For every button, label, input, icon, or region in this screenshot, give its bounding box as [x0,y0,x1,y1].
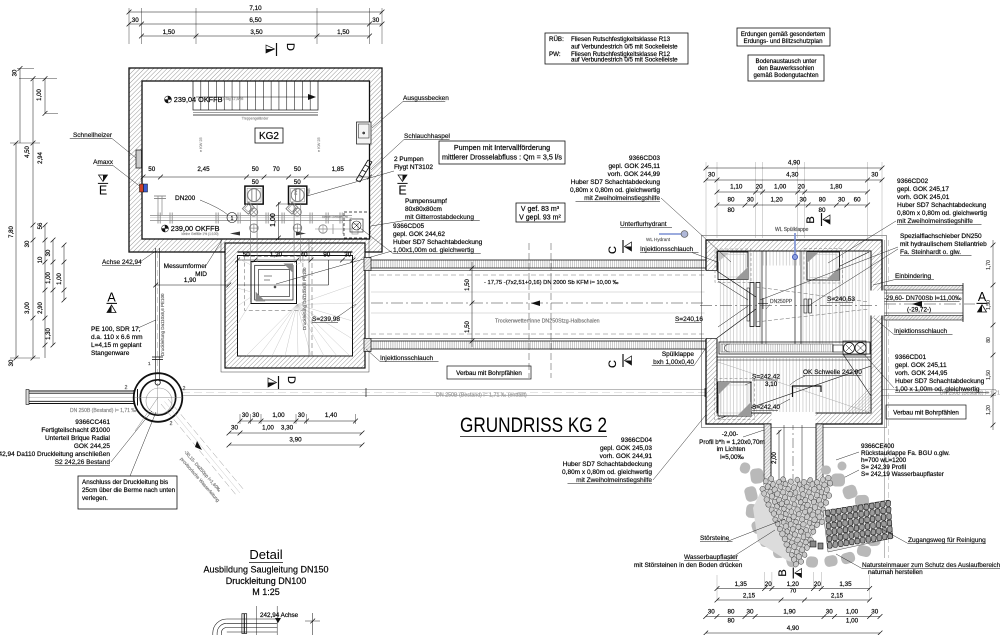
label Störsteine [700,519,785,542]
svg-text:1,90: 1,90 [783,609,796,616]
svg-text:Ausgussbecken: Ausgussbecken [403,95,449,102]
svg-text:1,85: 1,85 [332,166,345,173]
svg-text:Trockenwetterrinne DN250Stzg-: Trockenwetterrinne DN250Stzg-Halbschalen [495,319,600,325]
svg-text:-29,60- DN700Sb l=11,00‰: -29,60- DN700Sb l=11,00‰ [884,295,962,302]
label S=239,98 [312,304,356,323]
svg-text:30: 30 [46,249,52,256]
svg-text:1,10: 1,10 [730,184,743,191]
svg-text:4,50: 4,50 [25,146,31,158]
svg-text:25cm über die Berme nach unten: 25cm über die Berme nach unten [82,487,176,494]
svg-text:S=242,40: S=242,40 [752,404,780,411]
svg-text:Bodenaustausch unter: Bodenaustausch unter [756,58,817,65]
svg-text:50: 50 [148,166,156,173]
svg-text:OK Schwelle 242,90: OK Schwelle 242,90 [803,369,862,376]
svg-text:mit Zweiholmeinstiegshilfe: mit Zweiholmeinstiegshilfe [576,477,652,484]
vertical Druckleitung to shaft [148,248,165,380]
svg-text:30: 30 [799,197,807,204]
section marker B (bottom) [777,568,802,579]
section marker C (top) [607,240,632,254]
svg-text:50: 50 [252,179,260,186]
svg-text:1,20: 1,20 [787,581,800,588]
incoming pipe DN250 left [26,389,138,414]
svg-text:50: 50 [294,179,302,186]
label block 9366CD01 [862,352,989,393]
svg-text:9366CD04: 9366CD04 [621,437,652,444]
svg-text:Schlauchhaspel: Schlauchhaspel [404,133,450,140]
svg-text:30: 30 [242,412,250,419]
detail elbow drawing (Saugleitung) [213,606,320,635]
svg-text:1,50: 1,50 [163,29,176,36]
svg-text:7,80: 7,80 [9,226,15,238]
svg-text:20: 20 [765,581,773,588]
converging flow lines [756,287,869,322]
bottom dim chains (4,90) [703,572,882,635]
joint lines across channel [529,243,551,378]
label Unterflurhydrant + WL [620,221,688,242]
svg-text:4,90: 4,90 [787,625,800,632]
label Injektionsschlauch (right) [874,318,953,335]
svg-text:10: 10 [38,256,44,263]
label Natursteinmauer [836,554,1000,576]
svg-text:DW: DW [294,188,298,195]
svg-text:2: 2 [183,386,186,392]
svg-text:vorh. GOK 244,99: vorh. GOK 244,99 [608,171,661,178]
note box V gef/gepl [516,203,565,222]
svg-text:Huber SD7 Schachtabdeckung: Huber SD7 Schachtabdeckung [897,202,987,209]
Spülklappe flap channel + drive [717,341,871,360]
level mark 239,04 OKFFB [165,95,223,104]
svg-text:Schnellheizer: Schnellheizer [73,132,113,139]
svg-text:1,35: 1,35 [839,581,852,588]
leader 9366CD05 to sump [276,251,392,284]
svg-text:Fertigteilschacht Ø1000: Fertigteilschacht Ø1000 [41,427,110,434]
svg-text:vorh. GOK 245,01: vorh. GOK 245,01 [897,194,950,201]
svg-text:auf Verbundestrich 0/5 mit Soc: auf Verbundestrich 0/5 mit Sockelleiste [571,44,678,51]
svg-text:1,50: 1,50 [986,300,992,310]
DN200 label with detail bubble [175,195,237,223]
shaft square lower-left (9366CD04) [715,379,755,420]
svg-text:30: 30 [252,412,260,419]
section marker A (left) [107,291,118,313]
note box Erdungen [737,28,830,46]
svg-text:Störsteine: Störsteine [700,535,730,542]
svg-text:C: C [607,360,619,368]
svg-text:Achse 242,94: Achse 242,94 [102,259,142,266]
svg-text:2,45: 2,45 [197,166,210,173]
svg-text:RÜB:: RÜB: [549,36,564,43]
svg-text:1,35: 1,35 [735,581,748,588]
svg-text:30: 30 [708,172,716,179]
svg-text:4,90: 4,90 [788,160,801,167]
dim rows 3,90 near pit [227,412,365,447]
shaft square top-right (9366CD02) [804,249,843,284]
dim row inside KG2 (50/2,45/50/70/50/1,85) [141,166,372,186]
svg-text:Pumpensumpf: Pumpensumpf [405,198,447,205]
stone wall Zugangsweg (angular setts) [823,500,893,552]
neck dim 2,00 [772,430,781,486]
svg-text:9366CC461: 9366CC461 [75,419,110,426]
leaders to gates [760,247,898,306]
centerline + DN250PP [700,299,880,313]
svg-text:C: C [607,246,619,254]
Ausgussbecken (sink) [357,122,372,144]
svg-text:B: B [805,216,817,223]
svg-text:30: 30 [838,197,846,204]
svg-text:Huber SD7 Schachtabdeckung: Huber SD7 Schachtabdeckung [393,239,483,246]
svg-text:0,80m x 0,80m od. gleichwertig: 0,80m x 0,80m od. gleichwertig [897,210,987,217]
label Spülklappe bxh [652,348,706,366]
svg-text:verlegen.: verlegen. [82,495,108,502]
svg-text:2,15: 2,15 [831,593,844,600]
svg-text:2,15: 2,15 [743,593,756,600]
note box RÜB/PW Fliesen [545,33,688,64]
small dark stones [810,541,823,549]
svg-text:80: 80 [727,609,735,616]
svg-text:242,94 Da110 Druckleitung ansc: 242,94 Da110 Druckleitung anschließen [0,451,110,458]
left vertical dimension chains (7,80 / 4,50 / 2,94 ...) [9,66,66,366]
svg-text:Spülklappe: Spülklappe [662,351,695,358]
svg-text:1,00: 1,00 [846,618,859,625]
svg-text:30: 30 [231,425,239,432]
svg-text:Fliesen Rutschfestigkeitsklass: Fliesen Rutschfestigkeitsklasse R13 [571,36,671,43]
svg-text:E: E [398,184,406,198]
svg-text:2: 2 [125,385,128,391]
svg-text:1,40: 1,40 [325,412,338,419]
svg-text:-2,00-: -2,00- [722,431,738,438]
svg-text:GRUNDRISS KG 2: GRUNDRISS KG 2 [460,414,607,437]
label block 9366CD03 [570,155,731,262]
label block 9366CD04 [562,400,718,484]
svg-text:Druckleitung Da110x6,6 PE100: Druckleitung Da110x6,6 PE100 [302,267,307,330]
svg-text:0,80m x 0,80m od. gleichwertig: 0,80m x 0,80m od. gleichwertig [562,469,652,476]
svg-text:PE 100, SDR 17,: PE 100, SDR 17, [91,326,141,333]
svg-text:Anschluss der Druckleitung bis: Anschluss der Druckleitung bis [82,479,168,486]
svg-text:l=5,00‰: l=5,00‰ [720,454,744,461]
svg-text:S2 242,26 Bestand: S2 242,26 Bestand [55,459,111,466]
svg-text:e KW 25: e KW 25 [317,137,321,152]
section marker A (right) [977,290,988,312]
svg-text:im Lichten: im Lichten [717,446,746,453]
svg-text:DN250PP: DN250PP [770,299,793,305]
svg-text:3,30: 3,30 [281,425,294,432]
svg-text:mit Störsteinen in den Boden d: mit Störsteinen in den Boden drücken [634,562,743,569]
svg-text:30: 30 [826,609,834,616]
verbau line right side [885,240,889,558]
box Verbau mit Bohrpfählen (right) [886,405,966,419]
vertical dim 1,00 at pumps [270,202,290,241]
svg-text:Verbau mit Bohrpfählen: Verbau mit Bohrpfählen [456,370,522,377]
svg-text:2,90: 2,90 [38,302,44,314]
svg-text:1,00: 1,00 [57,273,63,285]
svg-text:9366CE400: 9366CE400 [861,443,895,450]
svg-text:242,94 Achse: 242,94 Achse [260,612,299,619]
svg-text:gepl. GOK 245,11: gepl. GOK 245,11 [608,163,660,170]
svg-text:Druckleitung DN100: Druckleitung DN100 [226,576,307,586]
label Achse 242,94 [102,251,156,266]
svg-text:1: 1 [231,216,234,222]
lower chamber diagonals [718,362,871,419]
label Pumpensumpf 80x80x80 [371,198,480,226]
outlet channel DN700 [884,283,975,322]
svg-text:1,20: 1,20 [771,197,784,204]
svg-text:20: 20 [798,184,806,191]
svg-text:1,00: 1,00 [774,184,787,191]
svg-text:30: 30 [871,172,879,179]
section marker C (bottom) [607,354,632,368]
label block 9366CC461 [0,411,152,466]
WL Spülklappe (blue water line) [775,227,809,260]
svg-text:50: 50 [294,166,302,173]
svg-text:1,00: 1,00 [46,272,52,284]
svg-text:V gef. 83 m³: V gef. 83 m³ [521,206,560,213]
svg-text:mit Zweiholmeinstiegshilfe: mit Zweiholmeinstiegshilfe [897,218,973,225]
svg-text:Zugangsweg für Reinigung: Zugangsweg für Reinigung [908,537,986,544]
right structure interior texture [718,252,871,413]
svg-text:30: 30 [298,412,306,419]
section marker B (top) [805,213,830,226]
svg-text:naturnah herstellen: naturnah herstellen [868,569,923,576]
label 9366CD05 block [360,223,483,254]
label Wasserbaupflaster [634,530,775,569]
svg-text:h=700 wL=1200: h=700 wL=1200 [861,457,907,464]
label 2 Pumpen Flygt NT3102 [307,156,433,196]
svg-text:30: 30 [132,17,140,24]
svg-text:30: 30 [871,609,879,616]
svg-text:3,90: 3,90 [289,437,302,444]
svg-text:30: 30 [747,197,755,204]
svg-text:D: D [285,376,297,384]
Spezialflachschieber gate [747,283,768,327]
svg-text:239,04 OKFFB: 239,04 OKFFB [174,95,223,104]
svg-text:Injektionsschlauch: Injektionsschlauch [894,328,947,335]
svg-text:gepl. GOK 245,17: gepl. GOK 245,17 [897,186,949,193]
svg-text:30: 30 [13,69,19,76]
svg-text:gepl. GOK 245,11: gepl. GOK 245,11 [895,362,947,369]
svg-text:17 Stg 17,5/26: 17 Stg 17,5/26 [221,97,244,101]
right structure outer walls (hatched) [702,236,887,428]
svg-text:Treppengeländer: Treppengeländer [242,117,269,121]
svg-text:Pumpen mit Intervallförderung: Pumpen mit Intervallförderung [454,143,550,152]
Amaxx power socket + label [93,159,147,192]
svg-text:L=4,15 m geplant: L=4,15 m geplant [91,342,142,349]
svg-text:Unterteil Brique Radial: Unterteil Brique Radial [45,435,111,442]
svg-text:WL Hydrant: WL Hydrant [646,237,671,242]
pump sump square in pit [238,256,329,310]
svg-text:Huber SD7 Schachtabdeckung: Huber SD7 Schachtabdeckung [563,461,653,468]
svg-text:Profil b*h = 1,20x0,70m: Profil b*h = 1,20x0,70m [699,439,765,446]
svg-text:1,90: 1,90 [184,277,197,284]
label Messumformer MID + dim 1,90 [153,240,231,287]
grey pipe tags in room [199,137,321,152]
svg-text:Amaxx: Amaxx [93,159,114,166]
label Einbindering [873,273,934,285]
svg-text:9366CD02: 9366CD02 [897,178,928,185]
svg-text:1,80: 1,80 [830,184,843,191]
svg-text:vorh. GOK 244,91: vorh. GOK 244,91 [600,453,653,460]
svg-text:1,00: 1,00 [846,609,859,616]
svg-text:gepl. GOK 245,03: gepl. GOK 245,03 [600,445,652,452]
Bestand pipe DN250 long grey [182,388,1000,399]
svg-text:80x80x80cm: 80x80x80cm [405,206,442,213]
title GRUNDRISS KG 2 [460,414,607,437]
svg-text:S=242,42: S=242,42 [752,374,780,381]
KG2 room outer walls (hatched) [129,68,382,252]
svg-text:1,30: 1,30 [46,328,52,340]
svg-text:80: 80 [727,197,735,204]
svg-text:mittlerer Drosselabfluss : Qm: mittlerer Drosselabfluss : Qm = 3,5 l/s [442,153,562,162]
svg-text:mit Gitterrostabdeckung: mit Gitterrostabdeckung [405,214,474,221]
svg-text:90: 90 [323,252,331,259]
svg-text:50: 50 [243,252,251,259]
svg-text:80: 80 [818,207,826,214]
Schlauchhaspel (hose reel) [356,160,372,182]
svg-text:0,80m x 0,80m od. gleichwertig: 0,80m x 0,80m od. gleichwertig [570,187,660,194]
svg-text:DN200: DN200 [175,195,196,202]
svg-text:Unterflurhydrant: Unterflurhydrant [620,221,667,228]
svg-text:2,94: 2,94 [38,152,44,164]
svg-text:1,00: 1,00 [270,213,277,227]
label Ausgussbecken [372,95,449,128]
svg-text:DN 250B (Bestand) i= 1,71 ‰ (e: DN 250B (Bestand) i= 1,71 ‰ (entfällt) [436,393,527,399]
svg-text:1,70: 1,70 [986,260,992,270]
svg-text:Fa. Steinhardt o. glw.: Fa. Steinhardt o. glw. [900,249,961,256]
svg-text:30: 30 [372,17,380,24]
svg-text:4,30: 4,30 [786,172,799,179]
svg-text:1,20: 1,20 [986,405,992,415]
svg-text:56: 56 [38,222,44,229]
svg-text:7,10: 7,10 [249,5,262,12]
pit floor slope lines [238,258,353,356]
svg-text:kleine Gefälle 1% (1:100): kleine Gefälle 1% (1:100) [181,232,218,236]
pebble field Wasserbaupflaster [753,475,834,568]
svg-text:30: 30 [344,252,352,259]
svg-text:Detail: Detail [249,547,282,562]
svg-text:1,00: 1,00 [262,426,274,432]
svg-text:M 1:25: M 1:25 [252,587,280,597]
DN2000 channel between structures [364,258,706,352]
svg-text:2 Pumpen: 2 Pumpen [394,156,424,163]
svg-text:gemäß Bodengutachten: gemäß Bodengutachten [753,72,818,79]
Detail title block [203,547,328,597]
dim chains above right structure [704,160,885,239]
svg-text:Druckleitung Da110x6,6 PE100: Druckleitung Da110x6,6 PE100 [160,293,165,356]
svg-text:GOK 244,25: GOK 244,25 [74,443,111,450]
svg-text:gepl. GOK 244,62: gepl. GOK 244,62 [393,231,445,238]
svg-text:30: 30 [747,609,755,616]
labels OK Schwelle / S=242,42 / S=242,40 [745,369,862,411]
svg-text:20: 20 [814,581,822,588]
label S=240,16 [675,316,703,323]
svg-text:20: 20 [756,184,764,191]
svg-text:mit hydraulischem Stellantrieb: mit hydraulischem Stellantrieb [900,241,987,248]
section marker D (bottom) [268,376,297,389]
svg-text:WL Spülklappe: WL Spülklappe [775,227,809,233]
svg-text:DN 250B (Bestand) i= 1,71 ‰: DN 250B (Bestand) i= 1,71 ‰ [70,408,136,414]
svg-text:1,50: 1,50 [986,370,992,380]
svg-text:Huber SD7 Schachtabdeckung: Huber SD7 Schachtabdeckung [895,378,985,385]
note box Anschluss der Druckleitung [78,412,177,509]
svg-text:S=240,16: S=240,16 [675,316,703,323]
svg-text:60: 60 [854,197,862,204]
svg-text:3,00: 3,00 [25,302,31,314]
svg-text:40: 40 [300,252,308,259]
suction piping in KG2 bottom [150,188,358,236]
svg-text:1,50: 1,50 [337,29,350,36]
svg-text:2,00: 2,00 [772,452,778,464]
staircase in KG2 [193,81,318,121]
svg-text:9366CD01: 9366CD01 [895,354,926,361]
svg-text:(-29,72-): (-29,72-) [907,307,931,314]
room label KG2 [255,128,283,143]
svg-text:1,50: 1,50 [465,321,471,333]
svg-text:Huber SD7 Schachtabdeckung: Huber SD7 Schachtabdeckung [571,179,661,186]
pit dim row 50/1,20/40/90/30 [235,252,355,263]
svg-text:D: D [284,43,296,51]
label Schlauchhaspel [371,133,450,170]
box Verbau mit Bohrpfählen (mid) [447,366,531,379]
svg-text:Flygt NT3102: Flygt NT3102 [394,164,433,171]
svg-text:30: 30 [9,359,15,366]
label Injektionsschlauch (top right) [640,246,717,262]
svg-text:Natursteinmauer zum Schutz des: Natursteinmauer zum Schutz des Auslaufbe… [862,562,1000,569]
Schnellheizer (wall heater) + label [70,132,142,168]
label block 9366CD02 [828,178,987,263]
svg-text:A: A [107,291,116,305]
flow funnel lines [717,252,871,396]
svg-text:- 17,75 -(7x2,51+0,16) DN 2000: - 17,75 -(7x2,51+0,16) DN 2000 Sb KFM i=… [484,280,619,286]
note box Pumpen mit Intervallförderung [439,141,565,164]
electric feed symbol E (right) [397,175,407,198]
provisorische Wasserleitung diagonal [161,399,244,503]
channel inner dims 1,50/1,50 [465,262,474,347]
label Injektionsschlauch (left) [366,349,439,362]
svg-text:3,50: 3,50 [250,29,263,36]
pump 2 (Flygt NT3102) [286,186,307,238]
svg-text:Erdungs- und Blitzschutzplan: Erdungs- und Blitzschutzplan [744,38,823,45]
svg-text:S=239,98: S=239,98 [312,316,340,323]
electric feed symbol E (left) [98,175,108,198]
svg-text:Injektionsschlauch: Injektionsschlauch [640,246,693,253]
svg-text:E: E [99,184,107,198]
svg-text:70: 70 [273,166,281,173]
svg-text:80: 80 [986,337,992,343]
svg-text:3,10: 3,10 [765,381,778,388]
svg-text:e KW 25: e KW 25 [199,137,203,152]
svg-text:Rückstauklappe Fa. BGU o.glw.: Rückstauklappe Fa. BGU o.glw. [861,450,950,457]
label Zugangsweg für Reinigung [880,528,986,544]
svg-text:mit Zweiholmeinstiegshilfe: mit Zweiholmeinstiegshilfe [584,195,660,202]
svg-text:50: 50 [252,166,260,173]
svg-text:S= 242,19 Wasserbaupflaster: S= 242,19 Wasserbaupflaster [861,471,944,478]
svg-text:1,00: 1,00 [37,89,43,101]
svg-text:KG2: KG2 [259,131,279,142]
svg-text:Ausbildung Saugleitung DN150: Ausbildung Saugleitung DN150 [203,565,328,575]
level mark 239,00 OKFFB [162,224,220,233]
svg-text:Stangenware: Stangenware [91,350,130,357]
svg-text:6,50: 6,50 [249,17,262,24]
channel label 17,75 DN2000 [484,280,619,286]
svg-text:den Bauwerkssohlen: den Bauwerkssohlen [758,65,815,72]
svg-text:80: 80 [819,197,827,204]
svg-text:30: 30 [25,240,31,247]
svg-text:PW:: PW: [549,51,561,58]
svg-text:30: 30 [708,609,716,616]
outlet neck below right structure [764,412,823,500]
svg-text:9366CD05: 9366CD05 [393,223,424,230]
right edge vertical dim chain [986,240,995,430]
svg-text:S= 242,39 Profil: S= 242,39 Profil [861,464,906,471]
label block 9366CE400 [806,443,950,497]
